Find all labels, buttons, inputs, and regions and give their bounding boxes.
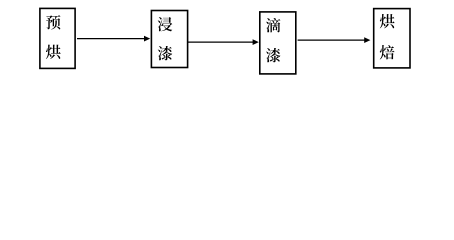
flow arrow 3: box3 to box4: arrowhead [364,37,370,43]
flow arrow 3: box3 to box4: connector line [298,39,366,41]
text 烘 (top line) in process box 4: 烘焙 (bake) [380,14,395,28]
text 预 (top line) in process box 1: 预烘 (pre-bake) [46,15,60,29]
flow arrow 1: box1 to box2: arrowhead [144,36,150,42]
process box 1: 预烘 (pre-bake) [40,8,75,68]
flow arrow 2: box2 to box3: connector line [188,41,254,43]
text 漆 (bottom line) in process box 2: 浸漆 (dip varnish) [158,46,172,60]
process box 2: 浸漆 (dip varnish) [151,11,187,68]
text 漆 (bottom line) in process box 3: 滴漆 (drip varnish) [266,48,280,62]
text 烘 (bottom line) in process box 1: 预烘 (pre-bake) [46,45,61,59]
process box 4: 烘焙 (bake) [374,9,410,68]
process box 3: 滴漆 (drip varnish) [260,12,296,74]
text 浸 (top line) in process box 2: 浸漆 (dip varnish) [158,17,173,31]
text 焙 (bottom line) in process box 4: 烘焙 (bake) [380,45,395,60]
text 滴 (top line) in process box 3: 滴漆 (drip varnish) [266,18,280,32]
flow arrow 1: box1 to box2: connector line [77,38,146,40]
flow arrow 2: box2 to box3: arrowhead [253,39,259,45]
